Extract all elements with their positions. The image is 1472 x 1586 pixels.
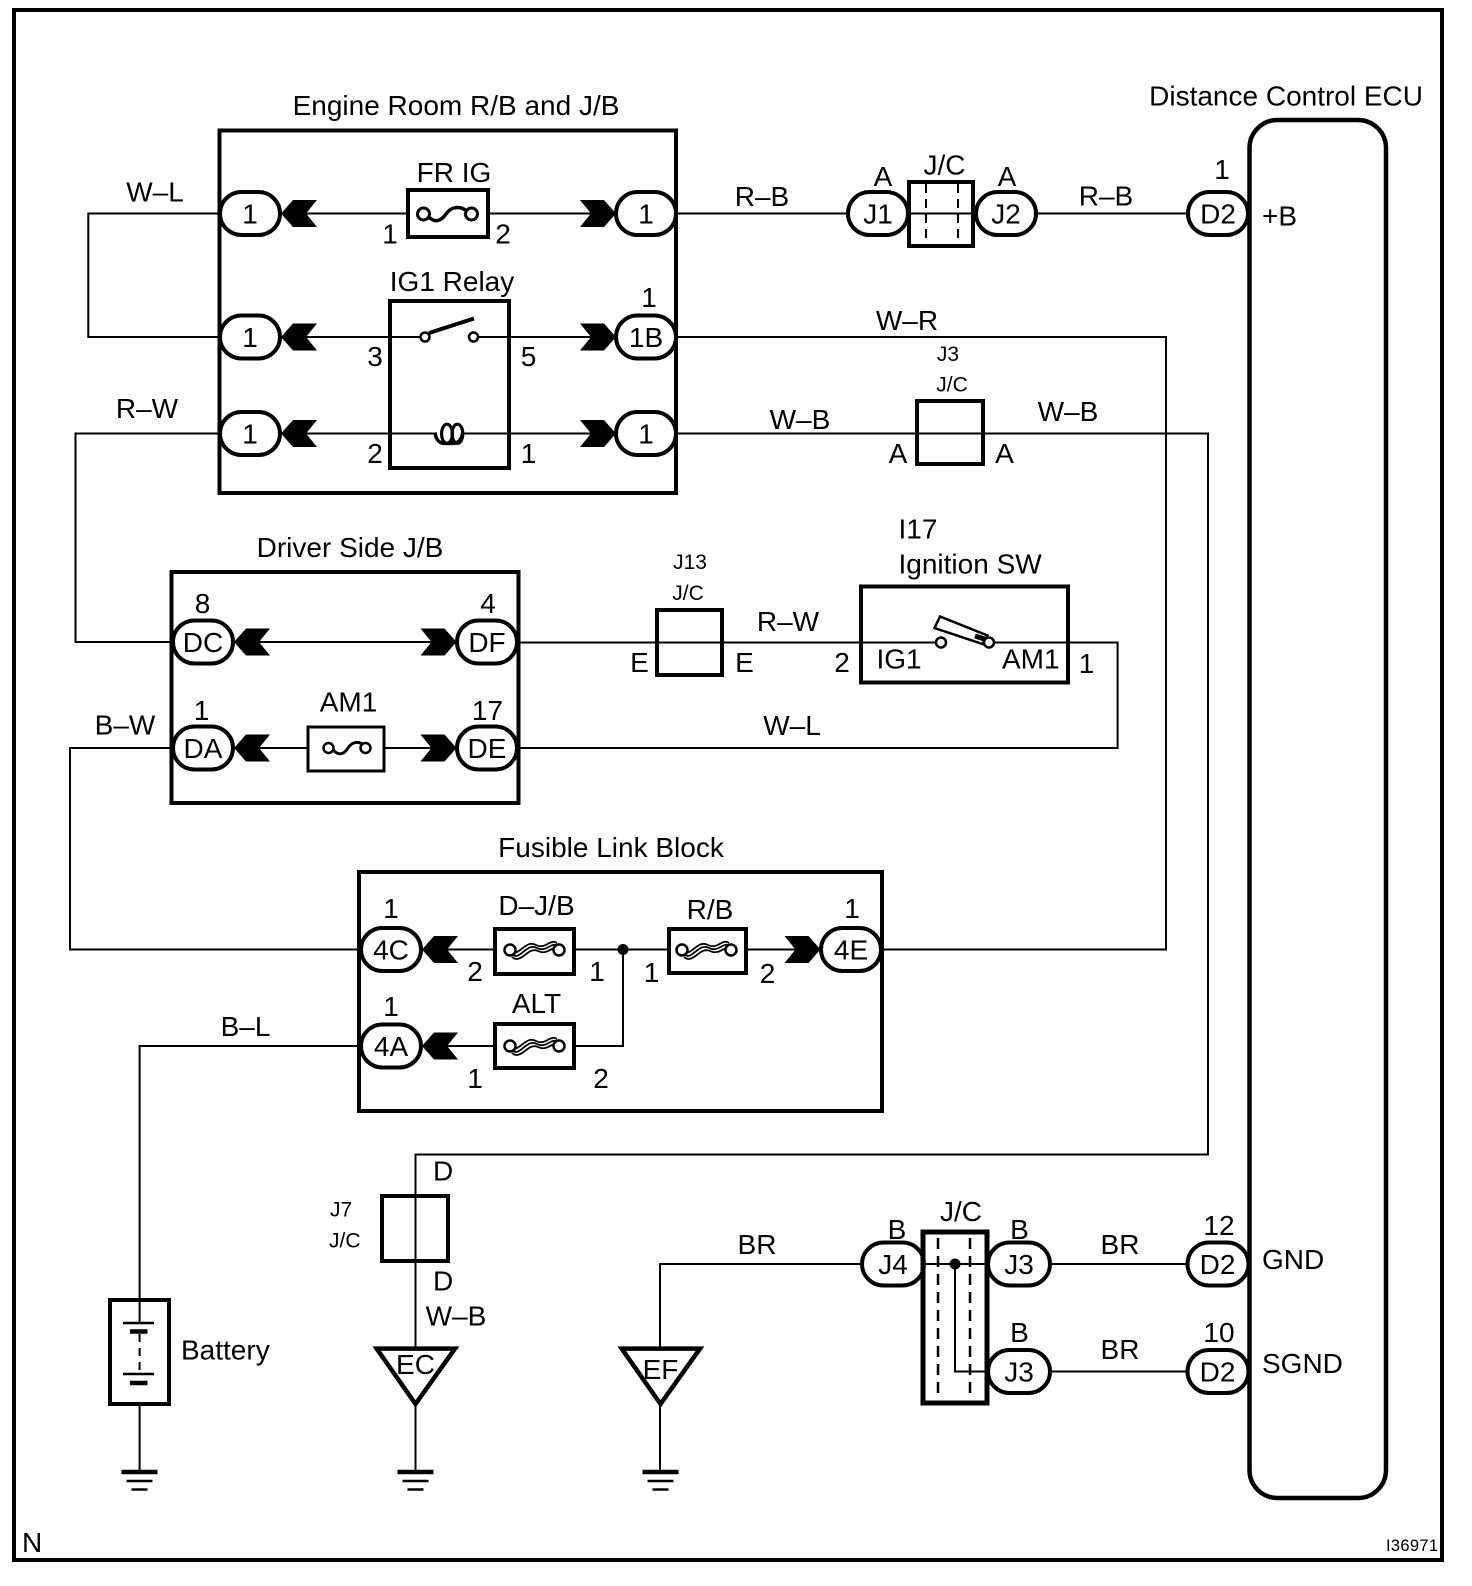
- wire relay coil to right ellipse 1: [462, 433, 616, 435]
- svg-text:1: 1: [242, 419, 258, 450]
- svg-text:R–B: R–B: [1079, 181, 1133, 212]
- wire BR: lower J3 to D2 SGND: [1049, 1371, 1188, 1373]
- junction block J/C bottom: [923, 1196, 987, 1403]
- connector DC: [173, 588, 233, 664]
- wire W-B: relay output through J3 J/C, right and down: [416, 434, 1209, 1349]
- fuse AM1: [308, 687, 384, 772]
- connector DE: [457, 695, 517, 770]
- arrow into DA: [234, 735, 270, 762]
- battery: [110, 1300, 270, 1404]
- svg-text:EF: EF: [643, 1354, 679, 1385]
- wire row1 ellipse1 to FR IG fuse: [280, 213, 424, 215]
- svg-text:IG1 Relay: IG1 Relay: [390, 266, 515, 297]
- svg-text:J/C: J/C: [924, 150, 966, 181]
- wire row2 ellipse to relay switch contact: [280, 336, 425, 338]
- svg-text:1: 1: [1079, 648, 1095, 679]
- svg-text:Distance Control ECU: Distance Control ECU: [1149, 81, 1423, 112]
- junction connector J1: [848, 161, 908, 235]
- wire EF triangle to ground: [659, 1404, 661, 1472]
- svg-text:1: 1: [242, 322, 258, 353]
- connector 1 engine room row2 left: [220, 316, 280, 359]
- svg-text:1: 1: [589, 956, 605, 987]
- svg-text:J/C: J/C: [672, 582, 704, 605]
- fusible link D-J/B: [467, 890, 605, 987]
- svg-text:W–L: W–L: [763, 710, 821, 741]
- svg-text:1: 1: [521, 438, 537, 469]
- wire R-W: DF through J13 J/C to ignition switch IG1: [517, 642, 941, 644]
- svg-text:DF: DF: [468, 627, 505, 658]
- svg-text:W–B: W–B: [1038, 396, 1099, 427]
- svg-text:J4: J4: [878, 1249, 908, 1280]
- wire junction down to ALT fusible link: [574, 950, 623, 1047]
- svg-text:2: 2: [593, 1063, 609, 1094]
- svg-text:3: 3: [367, 341, 383, 372]
- svg-text:4C: 4C: [373, 935, 409, 966]
- svg-text:I36971: I36971: [1386, 1537, 1438, 1555]
- svg-text:17: 17: [472, 695, 503, 726]
- svg-text:B: B: [888, 1214, 907, 1245]
- svg-text:AM1: AM1: [320, 687, 378, 718]
- arrow into DC: [234, 629, 270, 656]
- arrow into 4E: [785, 936, 821, 963]
- relay IG1: [367, 266, 536, 469]
- svg-text:Ignition SW: Ignition SW: [899, 549, 1043, 580]
- ground battery: [122, 1472, 158, 1490]
- wire B-L: 4A left and down to battery: [140, 1046, 362, 1323]
- svg-text:J1: J1: [863, 199, 893, 230]
- wire row3 ellipse to relay coil: [280, 433, 438, 435]
- svg-text:2: 2: [495, 219, 511, 250]
- wire FR IG fuse to right ellipse 1: [471, 213, 616, 215]
- svg-text:J/C: J/C: [940, 1196, 982, 1227]
- wire W-L: ignition switch AM1 right, down, left to DE: [517, 643, 1118, 749]
- wire 4C to D-J/B fusible link: [420, 949, 511, 951]
- fuse FR IG: [382, 157, 511, 250]
- svg-text:A: A: [889, 438, 908, 469]
- svg-text:ALT: ALT: [512, 988, 561, 1019]
- svg-text:J3: J3: [1004, 1357, 1034, 1388]
- Engine Room R/B and J/B block: [220, 90, 677, 493]
- wire BR: EF up and right to J4: [660, 1264, 863, 1349]
- svg-text:2: 2: [834, 647, 850, 678]
- connector DF: [457, 588, 517, 664]
- svg-text:1B: 1B: [629, 322, 663, 353]
- ECU pin D2 GND: [1188, 1210, 1325, 1286]
- svg-text:BR: BR: [1101, 1334, 1140, 1365]
- svg-text:EC: EC: [396, 1349, 435, 1380]
- arrow into row1 right connector: [580, 200, 616, 227]
- svg-text:1: 1: [638, 419, 654, 450]
- svg-text:J13: J13: [673, 551, 707, 574]
- svg-text:J/C: J/C: [329, 1230, 361, 1253]
- junction block J/C top: [909, 150, 973, 246]
- svg-text:GND: GND: [1262, 1244, 1324, 1275]
- svg-text:4A: 4A: [374, 1031, 409, 1062]
- fusible link R/B: [644, 894, 776, 989]
- svg-text:J2: J2: [991, 199, 1021, 230]
- ECU Distance Control ECU block: [1149, 81, 1423, 1499]
- svg-text:D2: D2: [1200, 199, 1236, 230]
- wire relay contact 5 to ellipse 1B: [474, 336, 617, 338]
- svg-text:Engine Room R/B and J/B: Engine Room R/B and J/B: [293, 90, 620, 121]
- svg-text:+B: +B: [1262, 201, 1297, 232]
- svg-text:4E: 4E: [834, 935, 868, 966]
- svg-text:1: 1: [383, 893, 399, 924]
- arrow into DF: [421, 629, 457, 656]
- wire battery to ground: [139, 1383, 141, 1472]
- svg-text:D–J/B: D–J/B: [498, 890, 574, 921]
- wire B-W: left of DA down to 4C: [70, 748, 362, 950]
- junction block J13 J/C: [630, 551, 754, 678]
- junction node: [618, 944, 629, 955]
- arrow into row2 left connector: [281, 324, 317, 351]
- svg-text:D2: D2: [1200, 1249, 1236, 1280]
- svg-text:A: A: [995, 438, 1014, 469]
- connector DA: [173, 695, 233, 770]
- junction connector J3 upper: [988, 1214, 1050, 1286]
- svg-text:2: 2: [760, 958, 776, 989]
- svg-text:D2: D2: [1200, 1357, 1236, 1388]
- ECU pin D2 +B: [1188, 154, 1297, 235]
- svg-text:IG1: IG1: [877, 644, 922, 675]
- junction block J3 J/C: [889, 343, 1015, 469]
- svg-text:1: 1: [638, 199, 654, 230]
- svg-text:Fusible Link Block: Fusible Link Block: [498, 832, 725, 863]
- ground terminal EC: [377, 1349, 455, 1404]
- Driver Side J/B block: [172, 532, 519, 803]
- junction node in J/C: [950, 1259, 961, 1270]
- svg-text:R–W: R–W: [116, 393, 179, 424]
- svg-text:W–B: W–B: [426, 1301, 487, 1332]
- wire R-B: engine room right to J1, J2 to D2 +B: [676, 213, 1188, 215]
- svg-text:DC: DC: [183, 627, 223, 658]
- svg-text:1: 1: [382, 219, 398, 250]
- svg-text:A: A: [874, 161, 893, 192]
- svg-text:W–R: W–R: [876, 305, 938, 336]
- svg-text:1: 1: [644, 957, 660, 988]
- connector 4E: [821, 893, 881, 971]
- svg-text:DA: DA: [184, 733, 223, 764]
- ground terminal EF: [622, 1349, 700, 1404]
- connector 4A: [361, 991, 421, 1068]
- svg-text:12: 12: [1203, 1210, 1234, 1241]
- svg-text:1: 1: [194, 695, 210, 726]
- svg-text:1: 1: [844, 893, 860, 924]
- junction connector J2: [976, 161, 1036, 235]
- svg-text:2: 2: [467, 956, 483, 987]
- svg-text:I17: I17: [899, 514, 938, 545]
- arrow into 4A: [422, 1033, 458, 1060]
- svg-text:4: 4: [480, 588, 496, 619]
- junction connector J4: [862, 1214, 924, 1286]
- svg-text:W–L: W–L: [126, 177, 184, 208]
- svg-text:R–W: R–W: [757, 606, 820, 637]
- wire W-L row1 to row2 loop left of engine room box: [88, 214, 220, 338]
- svg-text:R–B: R–B: [735, 181, 789, 212]
- arrow into connector 1B: [580, 324, 616, 351]
- ECU pin D2 SGND: [1188, 1317, 1343, 1393]
- svg-text:1: 1: [1214, 154, 1230, 185]
- wire DC to DF inside driver side J/B: [233, 641, 457, 643]
- svg-text:R/B: R/B: [687, 894, 734, 925]
- svg-text:2: 2: [367, 438, 383, 469]
- wire EC triangle to ground: [415, 1404, 417, 1472]
- svg-text:1: 1: [467, 1063, 483, 1094]
- svg-text:5: 5: [521, 341, 537, 372]
- wire R-W left: row3 ellipse to driver side J/B DC: [76, 434, 221, 643]
- svg-text:J3: J3: [937, 343, 959, 366]
- wire R/B to 4E: [744, 949, 821, 951]
- svg-text:SGND: SGND: [1262, 1348, 1343, 1379]
- svg-text:1: 1: [242, 199, 258, 230]
- wire inside J/C junction down to lower J3: [955, 1264, 989, 1372]
- svg-text:B: B: [1010, 1214, 1029, 1245]
- fusible link ALT: [467, 988, 609, 1094]
- junction block J7 J/C: [329, 1156, 453, 1297]
- svg-text:10: 10: [1203, 1317, 1234, 1348]
- svg-text:Driver Side J/B: Driver Side J/B: [257, 532, 444, 563]
- svg-text:W–B: W–B: [770, 404, 831, 435]
- junction connector J3 lower: [988, 1317, 1050, 1393]
- svg-text:B: B: [1010, 1317, 1029, 1348]
- Fusible Link Block: [359, 832, 882, 1111]
- connector 4C: [361, 893, 421, 971]
- wire W-R: 1B right, down, to 4E of fusible link block: [676, 337, 1166, 950]
- svg-text:1: 1: [383, 991, 399, 1022]
- svg-text:Battery: Battery: [181, 1335, 270, 1366]
- connector 1 engine room row3 left: [220, 412, 280, 455]
- svg-text:J3: J3: [1004, 1249, 1034, 1280]
- svg-text:E: E: [735, 647, 754, 678]
- connector 1 engine room row1 right: [616, 192, 676, 235]
- connector 1 engine room row3 right: [616, 412, 676, 455]
- svg-text:BR: BR: [1101, 1229, 1140, 1260]
- arrow into 4C: [422, 936, 458, 963]
- svg-text:8: 8: [195, 588, 211, 619]
- wire ALT to 4A: [420, 1045, 496, 1047]
- svg-text:N: N: [22, 1527, 42, 1558]
- svg-text:E: E: [630, 647, 649, 678]
- svg-text:FR IG: FR IG: [417, 157, 492, 188]
- svg-text:A: A: [998, 161, 1017, 192]
- wire D-J/B to junction to R/B fusible link: [558, 949, 670, 951]
- arrow into row1 left connector: [281, 200, 317, 227]
- arrow into row3 left connector: [281, 420, 317, 447]
- svg-text:AM1: AM1: [1002, 644, 1060, 675]
- svg-text:D: D: [433, 1156, 453, 1187]
- svg-text:B–W: B–W: [95, 710, 156, 741]
- arrow into DE: [421, 735, 457, 762]
- connector 1B: [616, 282, 676, 359]
- svg-text:D: D: [433, 1266, 453, 1297]
- ground EC: [398, 1472, 434, 1490]
- svg-text:B–L: B–L: [221, 1011, 271, 1042]
- svg-text:DE: DE: [468, 733, 507, 764]
- arrow into row3 right connector: [580, 420, 616, 447]
- svg-text:J7: J7: [330, 1199, 352, 1222]
- wire DA to DE through AM1 fuse: [233, 747, 457, 749]
- svg-text:BR: BR: [738, 1229, 777, 1260]
- ignition switch I17: [834, 514, 1094, 683]
- ground EF: [643, 1472, 679, 1490]
- svg-text:1: 1: [641, 282, 657, 313]
- connector 1 engine room row1 left: [220, 192, 280, 235]
- wire BR: J4 through J/C to D2 GND: [923, 1263, 1188, 1265]
- svg-text:J/C: J/C: [936, 374, 968, 397]
